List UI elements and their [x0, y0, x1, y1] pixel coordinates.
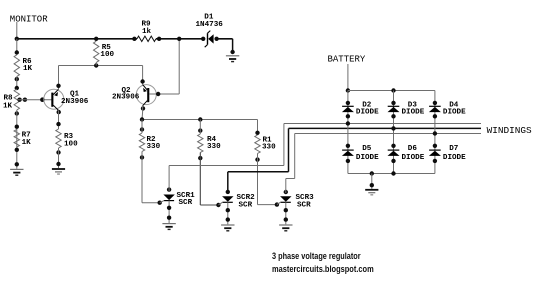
- thyristor SCR1: [167, 187, 171, 191]
- junction dot R7 top: [15, 125, 19, 129]
- ground D1: [226, 55, 239, 56]
- diode D7: [433, 144, 437, 148]
- junction dot phase1 tap: [346, 121, 350, 125]
- wire SCR3 cathode: [285, 202, 287, 224]
- junction dot bridge ground stem: [370, 183, 374, 187]
- ground left rail: [10, 169, 23, 170]
- wire bridge top rail: [348, 90, 435, 92]
- wire R3 to ground: [58, 148, 60, 168]
- resistor R8: [14, 89, 19, 110]
- junction dot SCR1 cathode a: [167, 206, 171, 210]
- junction dot R3 ground lead: [56, 162, 60, 166]
- junction dot ground lead: [15, 162, 19, 166]
- transistor Q1 2N3906: [44, 89, 64, 110]
- resistor R3: [56, 129, 61, 148]
- svg-text:SCR: SCR: [297, 201, 311, 209]
- junction dot SCR2 gate: [216, 203, 220, 207]
- junction dot R8 top: [15, 86, 19, 90]
- junction dot battery/rail: [346, 88, 350, 92]
- svg-text:DIODE: DIODE: [356, 154, 379, 162]
- junction dot R3 top: [56, 122, 60, 126]
- ground bridge: [365, 189, 378, 191]
- svg-text:SCR: SCR: [239, 201, 253, 209]
- junction dot bottom rail col2: [391, 171, 395, 175]
- junction dot base tap a: [17, 98, 21, 102]
- diode D2: [346, 101, 350, 105]
- wire Q2 base riser: [178, 39, 180, 94]
- junction dot R6 bottom: [15, 77, 19, 81]
- resistor R7: [14, 130, 19, 148]
- junction dot Q1 emitter: [57, 110, 61, 114]
- junction dot bridge ground lead: [370, 171, 374, 175]
- svg-text:SCR: SCR: [179, 199, 193, 207]
- svg-text:330: 330: [262, 143, 276, 151]
- diode D6: [391, 144, 395, 148]
- svg-text:100: 100: [100, 51, 114, 59]
- wire winding line 1: [284, 123, 481, 125]
- wire winding line 3: [295, 133, 481, 135]
- junction dot rail/left rail: [15, 37, 19, 41]
- resistor R4: [198, 134, 203, 153]
- diode D4: [433, 101, 437, 105]
- svg-text:DIODE: DIODE: [443, 154, 466, 162]
- junction dot SCR3 cathode a: [284, 208, 288, 212]
- junction dot Q1 collector: [56, 84, 60, 88]
- junction dot R1 bottom: [255, 157, 259, 161]
- diode D3: [391, 101, 395, 105]
- wire R4 to SCR2 gate: [199, 153, 201, 206]
- junction dot SCR3 gate: [275, 202, 279, 206]
- thyristor SCR2: [226, 190, 230, 194]
- ground SCR2: [221, 224, 234, 225]
- wire Q1 base: [18, 99, 52, 101]
- wire phase1 drop: [283, 124, 285, 166]
- wire SCR1 anode riser: [168, 166, 170, 192]
- svg-text:DIODE: DIODE: [402, 108, 425, 116]
- wire SCR3 anode riser: [285, 179, 287, 194]
- svg-text:2N3906: 2N3906: [112, 94, 140, 102]
- junction dot rail base tap: [177, 37, 181, 41]
- svg-text:D7: D7: [449, 145, 459, 153]
- svg-text:mastercircuits.blogspot.com: mastercircuits.blogspot.com: [272, 264, 374, 275]
- wire phase column 3: [434, 91, 436, 174]
- wire bridge bottom rail: [348, 173, 435, 175]
- junction dot Q2 collector: [140, 79, 144, 83]
- top rail mid segment: [156, 38, 203, 40]
- wire SCR3 anode jog: [286, 178, 295, 180]
- junction dot D3 rail: [391, 88, 395, 92]
- svg-text:3 phase voltage regulator: 3 phase voltage regulator: [272, 251, 361, 262]
- svg-text:1K: 1K: [23, 65, 33, 73]
- wire phase3 drop: [294, 134, 296, 179]
- junction dot R1 top: [255, 131, 259, 135]
- junction dot R3 bottom: [56, 150, 60, 154]
- wire winding line 2: [289, 127, 482, 129]
- junction dot emitter bus left: [140, 117, 144, 121]
- wire left bias rail: [16, 39, 18, 53]
- resistor R2: [139, 133, 144, 152]
- svg-text:2N3906: 2N3906: [61, 98, 89, 106]
- thyristor SCR3: [284, 190, 288, 194]
- wire Q1 collector up: [58, 66, 60, 90]
- junction dot R4 bottom: [198, 156, 202, 160]
- junction dot R4 tap: [198, 117, 202, 121]
- junction dot phase3 tap: [433, 131, 437, 135]
- resistor R5: [94, 37, 98, 41]
- junction dot SCR1 cathode b: [167, 216, 171, 220]
- junction dot Q1 base terminal: [40, 97, 45, 102]
- wire Q2 base right: [149, 93, 179, 95]
- svg-text:100: 100: [64, 140, 78, 148]
- ground SCR1: [162, 223, 175, 224]
- svg-text:D6: D6: [408, 145, 418, 153]
- junction dot R2 bottom: [140, 155, 144, 159]
- svg-text:WINDINGS: WINDINGS: [487, 126, 532, 136]
- junction dot Q2 emitter: [141, 106, 145, 110]
- resistor R1: [255, 135, 260, 154]
- wire phase column 2: [393, 91, 395, 174]
- wire emitter bus horizontal: [142, 119, 258, 121]
- wire SCR1 anode horizontal: [169, 165, 284, 167]
- ground SCR3: [279, 224, 292, 225]
- diode D5: [346, 144, 350, 148]
- junction dot R4 top: [198, 128, 202, 132]
- svg-text:1N4736: 1N4736: [196, 21, 224, 29]
- svg-text:DIODE: DIODE: [443, 108, 466, 116]
- junction dot R7 bottom: [15, 148, 19, 152]
- top rail right segment: [217, 38, 233, 40]
- junction dot SCR1 gate: [158, 201, 162, 205]
- wire node A horizontal (Q1-R5-Q2 tops): [59, 65, 143, 67]
- wire R1 to SCR3 gate: [257, 154, 259, 205]
- wire phase2 drop: [288, 128, 290, 171]
- wire phase column 1: [347, 91, 349, 174]
- junction dot R5 bottom: [94, 63, 98, 67]
- transistor Q2 2N3906: [136, 85, 156, 106]
- junction dot SCR3 cathode b: [284, 217, 288, 221]
- wire Q2 emitter down: [142, 106, 144, 112]
- wire emitter bus corner to R1: [257, 120, 259, 136]
- svg-text:MONITOR: MONITOR: [10, 15, 48, 25]
- junction dot R8 bottom: [15, 111, 19, 115]
- wire SCR2 anode horizontal: [228, 171, 289, 173]
- junction dot R6 top: [15, 50, 19, 54]
- wire D1 ground drop: [232, 39, 234, 52]
- wire Q2 collector up: [142, 66, 144, 86]
- junction dot SCR2 cathode b: [226, 217, 230, 221]
- junction dot Q2 base: [156, 92, 160, 96]
- top rail (MONITOR bus) left segment: [17, 38, 137, 40]
- wire SCR2 anode riser: [227, 172, 229, 193]
- wire bridge ground stem: [371, 174, 373, 189]
- svg-text:DIODE: DIODE: [356, 108, 379, 116]
- wire SCR1 cathode: [168, 201, 170, 223]
- junction dot SCR2 cathode a: [226, 208, 230, 212]
- svg-text:D5: D5: [362, 145, 372, 153]
- svg-text:330: 330: [207, 143, 221, 151]
- junction dot D1 ground lead: [230, 50, 234, 54]
- wire SCR2 cathode: [227, 202, 229, 224]
- svg-text:1K: 1K: [3, 103, 13, 111]
- svg-text:330: 330: [147, 143, 161, 151]
- wire battery drop: [347, 64, 349, 91]
- ground R3: [52, 168, 65, 170]
- wire MONITOR stub: [16, 22, 18, 39]
- junction dot R2 top: [140, 127, 144, 131]
- wire R2 to SCR1 gate: [141, 152, 143, 203]
- wire Q1 emitter down: [58, 110, 60, 129]
- svg-text:DIODE: DIODE: [402, 154, 425, 162]
- svg-text:1k: 1k: [142, 28, 152, 36]
- junction dot base tap b: [23, 98, 27, 102]
- svg-text:BATTERY: BATTERY: [328, 55, 366, 65]
- junction dot phase2 tap: [391, 126, 395, 130]
- svg-text:1K: 1K: [22, 139, 32, 147]
- svg-text:R8: R8: [4, 95, 14, 103]
- resistor R6: [14, 55, 19, 77]
